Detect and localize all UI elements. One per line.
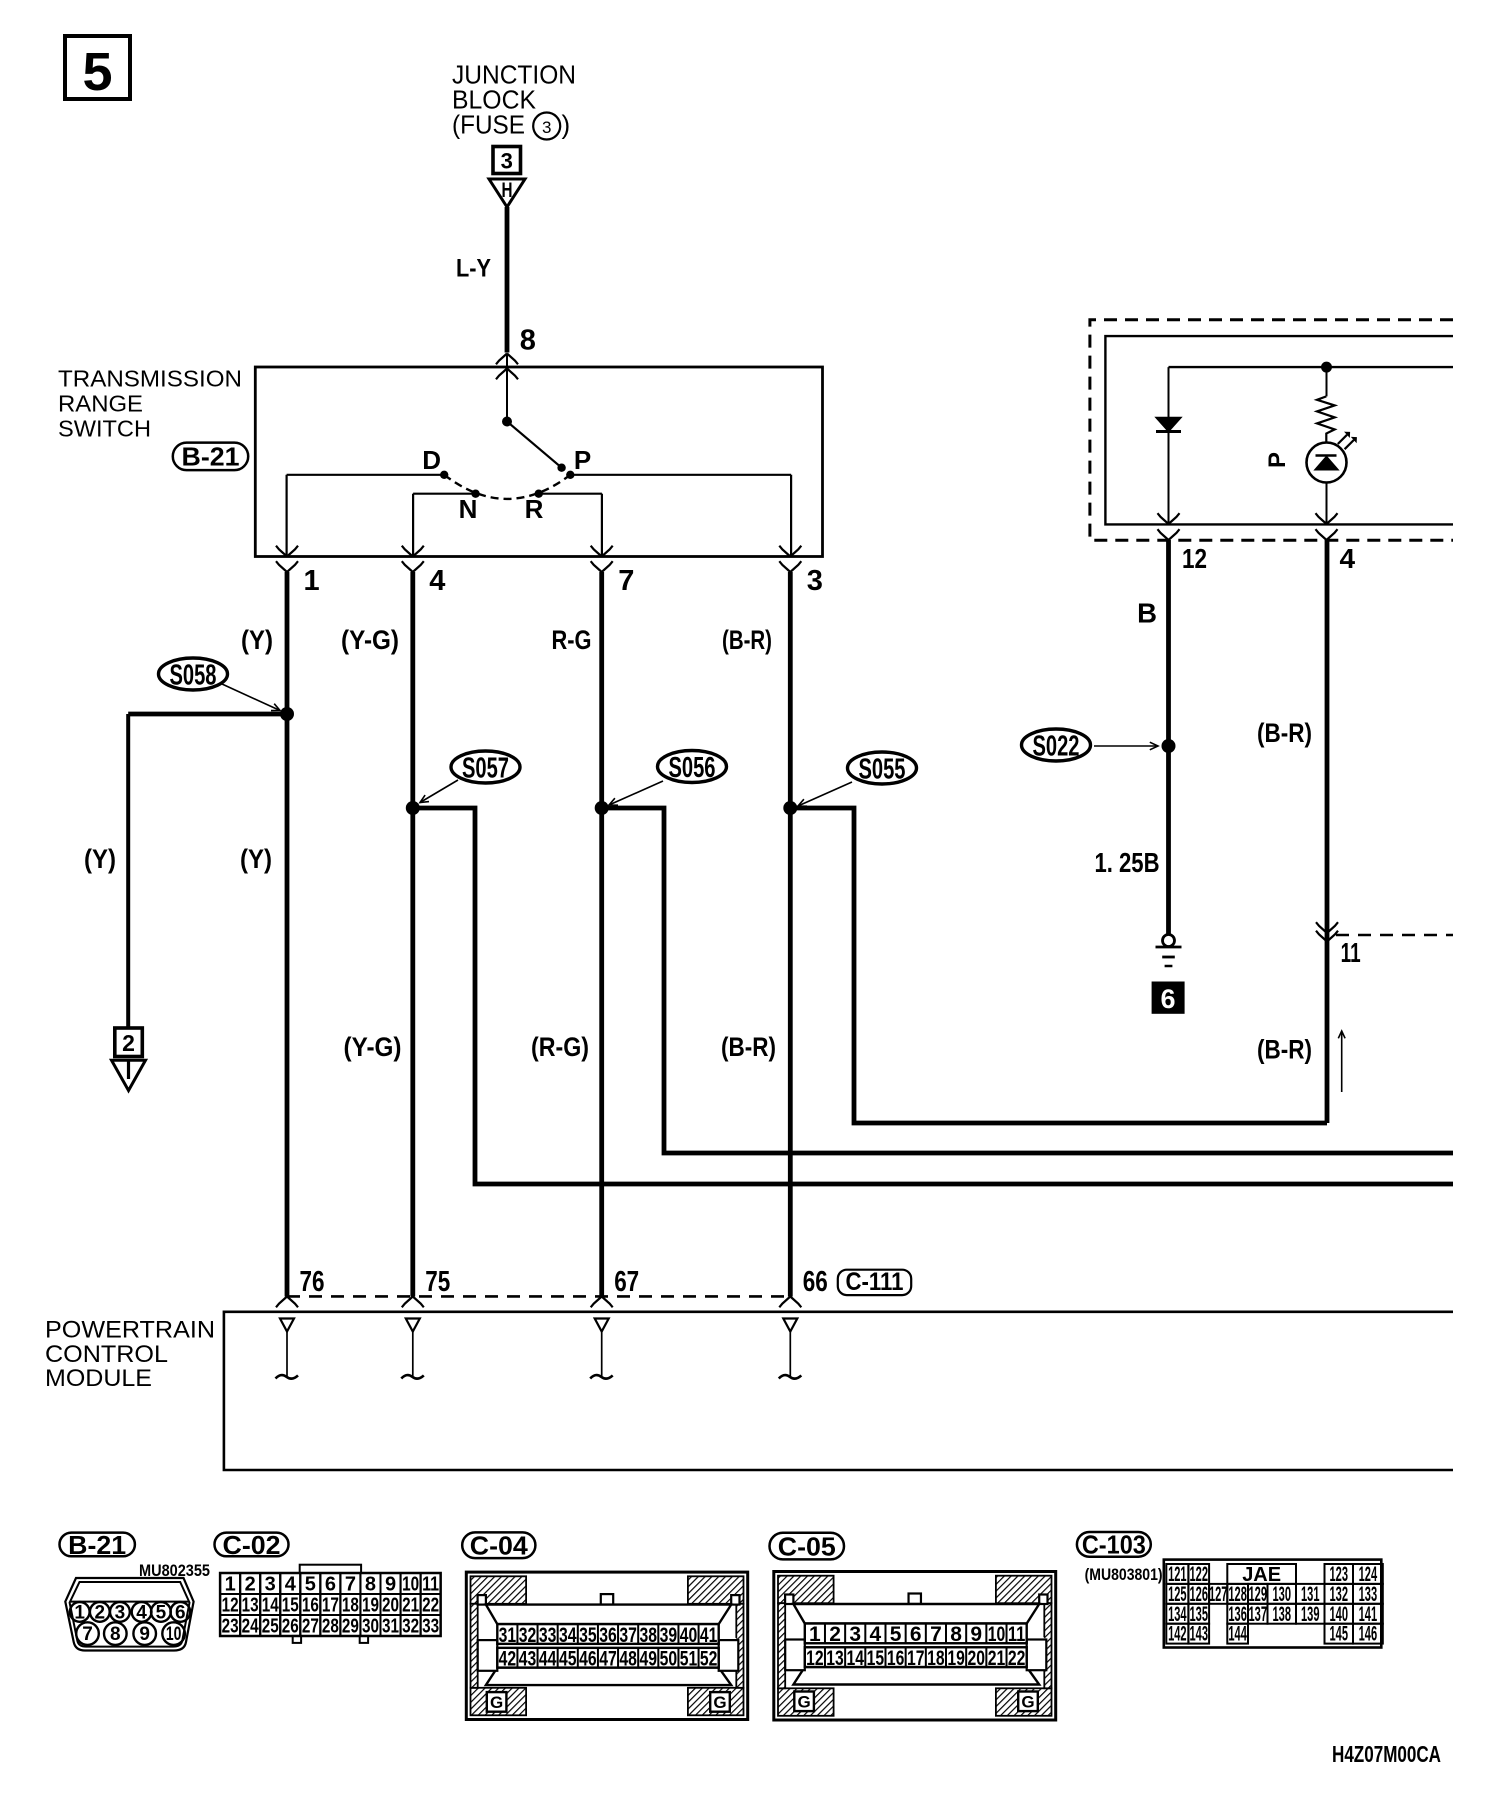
svg-text:S022: S022 <box>1033 730 1080 762</box>
svg-text:35: 35 <box>579 1624 597 1647</box>
svg-text:R: R <box>525 494 544 524</box>
svg-text:C-111: C-111 <box>846 1268 904 1296</box>
svg-text:137: 137 <box>1249 1603 1268 1626</box>
svg-text:POWERTRAIN: POWERTRAIN <box>45 1317 215 1344</box>
svg-text:28: 28 <box>322 1616 339 1638</box>
svg-text:4: 4 <box>136 1602 147 1623</box>
svg-text:L-Y: L-Y <box>456 255 491 283</box>
svg-text:5: 5 <box>156 1602 167 1623</box>
svg-text:9: 9 <box>970 1623 982 1646</box>
svg-text:47: 47 <box>599 1648 617 1671</box>
svg-text:4: 4 <box>429 565 445 597</box>
svg-text:14: 14 <box>846 1647 864 1670</box>
svg-text:12: 12 <box>806 1647 824 1670</box>
svg-text:(R-G): (R-G) <box>531 1032 589 1062</box>
svg-text:32: 32 <box>402 1616 419 1638</box>
svg-text:(Y): (Y) <box>240 844 272 874</box>
svg-text:7: 7 <box>82 1624 93 1645</box>
svg-text:5: 5 <box>82 42 112 102</box>
svg-text:14: 14 <box>262 1595 280 1617</box>
svg-text:3: 3 <box>501 149 513 174</box>
svg-text:4: 4 <box>870 1623 882 1646</box>
svg-text:(FUSE: (FUSE <box>452 110 525 140</box>
svg-text:49: 49 <box>640 1648 658 1671</box>
svg-text:31: 31 <box>382 1616 399 1638</box>
svg-text:B-21: B-21 <box>182 442 240 472</box>
svg-text:46: 46 <box>579 1648 597 1671</box>
svg-text:145: 145 <box>1330 1623 1349 1646</box>
svg-text:51: 51 <box>680 1648 698 1671</box>
svg-text:7: 7 <box>345 1574 356 1596</box>
svg-text:1: 1 <box>809 1623 821 1646</box>
svg-text:3: 3 <box>115 1602 126 1623</box>
svg-text:RANGE: RANGE <box>58 391 143 417</box>
svg-text:7: 7 <box>618 565 634 597</box>
svg-text:40: 40 <box>680 1624 698 1647</box>
svg-text:15: 15 <box>867 1647 885 1670</box>
svg-text:3: 3 <box>849 1623 861 1646</box>
svg-text:3: 3 <box>265 1574 276 1596</box>
svg-text:15: 15 <box>282 1595 299 1617</box>
svg-text:8: 8 <box>365 1574 376 1596</box>
svg-text:B: B <box>1137 598 1157 629</box>
svg-text:G: G <box>490 1693 503 1712</box>
svg-text:S058: S058 <box>170 659 217 691</box>
svg-text:144: 144 <box>1228 1623 1247 1646</box>
svg-text:12: 12 <box>222 1595 239 1617</box>
svg-text:48: 48 <box>619 1648 637 1671</box>
svg-text:(B-R): (B-R) <box>721 1032 776 1062</box>
svg-text:20: 20 <box>968 1647 986 1670</box>
svg-text:9: 9 <box>385 1574 396 1596</box>
svg-text:38: 38 <box>640 1624 658 1647</box>
svg-text:11: 11 <box>1341 937 1361 968</box>
svg-text:10: 10 <box>988 1623 1006 1646</box>
svg-text:30: 30 <box>362 1616 379 1638</box>
svg-text:TRANSMISSION: TRANSMISSION <box>58 365 242 391</box>
svg-text:C-05: C-05 <box>778 1531 836 1561</box>
svg-text:C-103: C-103 <box>1082 1530 1146 1560</box>
svg-text:17: 17 <box>322 1595 339 1617</box>
svg-text:142: 142 <box>1168 1623 1187 1646</box>
svg-text:P: P <box>1264 452 1291 468</box>
svg-text:66: 66 <box>803 1266 828 1298</box>
svg-text:76: 76 <box>300 1266 325 1298</box>
svg-text:6: 6 <box>175 1602 186 1623</box>
svg-text:(MU803801): (MU803801) <box>1085 1565 1163 1584</box>
svg-text:B-21: B-21 <box>68 1530 126 1560</box>
svg-text:S057: S057 <box>462 752 509 784</box>
svg-text:16: 16 <box>302 1595 319 1617</box>
svg-text:27: 27 <box>302 1616 319 1638</box>
svg-text:1: 1 <box>74 1602 85 1623</box>
svg-text:22: 22 <box>422 1595 439 1617</box>
svg-text:C-04: C-04 <box>470 1531 529 1561</box>
svg-text:(Y): (Y) <box>241 625 273 655</box>
svg-text:33: 33 <box>422 1616 439 1638</box>
svg-text:2: 2 <box>245 1574 256 1596</box>
svg-text:MODULE: MODULE <box>45 1365 152 1392</box>
svg-text:36: 36 <box>599 1624 617 1647</box>
svg-text:(Y-G): (Y-G) <box>341 625 399 655</box>
svg-text:9: 9 <box>139 1624 150 1645</box>
svg-text:42: 42 <box>499 1648 517 1671</box>
svg-text:G: G <box>797 1693 810 1712</box>
svg-text:5: 5 <box>890 1623 902 1646</box>
svg-text:P: P <box>574 445 591 475</box>
svg-text:S055: S055 <box>859 753 906 785</box>
svg-text:29: 29 <box>342 1616 359 1638</box>
svg-text:13: 13 <box>242 1595 259 1617</box>
svg-text:26: 26 <box>282 1616 299 1638</box>
svg-text:C-02: C-02 <box>223 1530 281 1560</box>
svg-text:21: 21 <box>402 1595 419 1617</box>
svg-text:6: 6 <box>1160 984 1175 1014</box>
svg-text:24: 24 <box>242 1616 260 1638</box>
svg-text:22: 22 <box>1008 1647 1026 1670</box>
svg-text:17: 17 <box>907 1647 925 1670</box>
svg-text:31: 31 <box>499 1624 517 1647</box>
svg-text:20: 20 <box>382 1595 399 1617</box>
svg-text:(B-R): (B-R) <box>722 625 772 655</box>
svg-text:43: 43 <box>519 1648 537 1671</box>
svg-text:39: 39 <box>660 1624 678 1647</box>
svg-text:6: 6 <box>325 1574 336 1596</box>
svg-text:12: 12 <box>1182 543 1207 574</box>
svg-text:G: G <box>713 1693 726 1712</box>
svg-text:67: 67 <box>614 1266 639 1298</box>
svg-text:146: 146 <box>1359 1623 1378 1646</box>
svg-text:4: 4 <box>1340 543 1356 574</box>
svg-text:8: 8 <box>110 1624 121 1645</box>
svg-text:SWITCH: SWITCH <box>58 416 151 442</box>
svg-text:143: 143 <box>1190 1623 1209 1646</box>
svg-text:45: 45 <box>559 1648 577 1671</box>
svg-text:R-G: R-G <box>552 625 592 655</box>
svg-text:41: 41 <box>700 1624 718 1647</box>
svg-text:2: 2 <box>122 1030 135 1056</box>
svg-text:11: 11 <box>1008 1623 1026 1646</box>
svg-text:(B-R): (B-R) <box>1257 718 1312 748</box>
svg-text:8: 8 <box>520 324 536 356</box>
svg-text:(Y-G): (Y-G) <box>344 1032 402 1062</box>
svg-text:4: 4 <box>285 1574 297 1596</box>
svg-text:18: 18 <box>342 1595 359 1617</box>
svg-text:16: 16 <box>887 1647 905 1670</box>
svg-text:11: 11 <box>422 1574 439 1596</box>
svg-text:19: 19 <box>362 1595 379 1617</box>
svg-text:34: 34 <box>559 1624 577 1647</box>
svg-text:32: 32 <box>519 1624 537 1647</box>
svg-text:2: 2 <box>829 1623 841 1646</box>
svg-text:N: N <box>459 494 478 524</box>
svg-text:37: 37 <box>619 1624 637 1647</box>
svg-text:8: 8 <box>950 1623 962 1646</box>
svg-text:10: 10 <box>402 1574 419 1596</box>
svg-text:75: 75 <box>425 1266 450 1298</box>
svg-text:23: 23 <box>222 1616 239 1638</box>
svg-text:D: D <box>422 445 441 475</box>
svg-text:H: H <box>502 179 513 202</box>
svg-text:33: 33 <box>539 1624 557 1647</box>
svg-text:52: 52 <box>700 1648 718 1671</box>
svg-text:44: 44 <box>539 1648 557 1671</box>
svg-text:G: G <box>1021 1693 1034 1712</box>
svg-text:3: 3 <box>807 565 823 597</box>
svg-text:13: 13 <box>826 1647 844 1670</box>
svg-text:1. 25B: 1. 25B <box>1095 847 1160 878</box>
svg-text:19: 19 <box>947 1647 965 1670</box>
svg-text:1: 1 <box>225 1574 236 1596</box>
svg-text:(B-R): (B-R) <box>1257 1035 1312 1065</box>
svg-text:18: 18 <box>927 1647 945 1670</box>
svg-text:138: 138 <box>1273 1603 1292 1626</box>
svg-text:7: 7 <box>930 1623 942 1646</box>
svg-text:127: 127 <box>1209 1583 1228 1606</box>
svg-text:3: 3 <box>542 118 551 137</box>
svg-text:25: 25 <box>262 1616 279 1638</box>
svg-text:1: 1 <box>304 565 320 597</box>
svg-text:139: 139 <box>1301 1603 1320 1626</box>
svg-text:5: 5 <box>305 1574 316 1596</box>
svg-text:2: 2 <box>95 1602 106 1623</box>
svg-text:CONTROL: CONTROL <box>45 1341 168 1368</box>
svg-text:6: 6 <box>910 1623 922 1646</box>
svg-text:H4Z07M00CA: H4Z07M00CA <box>1332 1741 1441 1767</box>
svg-text:21: 21 <box>988 1647 1006 1670</box>
svg-text:S056: S056 <box>669 752 716 784</box>
svg-text:10: 10 <box>166 1624 182 1645</box>
svg-text:): ) <box>562 110 571 140</box>
svg-text:50: 50 <box>660 1648 678 1671</box>
svg-text:(Y): (Y) <box>84 844 116 874</box>
